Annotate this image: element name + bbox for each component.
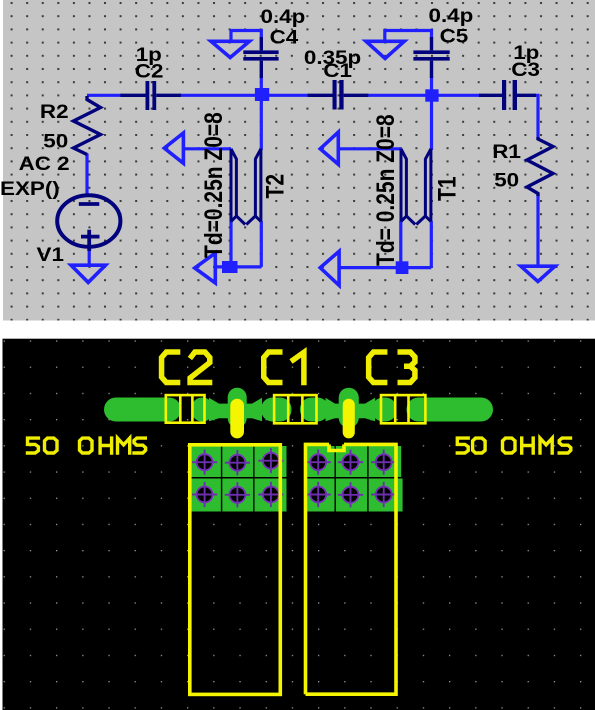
svg-text:T1: T1 bbox=[433, 176, 461, 201]
svg-text:T2: T2 bbox=[261, 174, 289, 199]
svg-text:R2: R2 bbox=[40, 102, 69, 123]
svg-text:Td= 0.25n Z0=8: Td= 0.25n Z0=8 bbox=[371, 114, 399, 266]
svg-text:0.4p: 0.4p bbox=[429, 6, 474, 27]
svg-text:EXP(): EXP() bbox=[0, 178, 60, 199]
svg-text:50: 50 bbox=[494, 170, 519, 191]
svg-text:C4: C4 bbox=[270, 27, 299, 48]
svg-text:C5: C5 bbox=[440, 26, 469, 47]
svg-text:AC 2: AC 2 bbox=[19, 154, 70, 175]
svg-text:C2: C2 bbox=[135, 61, 164, 82]
svg-text:C3: C3 bbox=[511, 60, 540, 81]
svg-text:V1: V1 bbox=[37, 244, 64, 265]
svg-text:C1: C1 bbox=[323, 61, 352, 82]
svg-text:R1: R1 bbox=[492, 141, 521, 162]
svg-text:50: 50 bbox=[43, 131, 68, 152]
svg-text:0.4p: 0.4p bbox=[261, 7, 306, 28]
svg-text:Td=0.25n Z0=8: Td=0.25n Z0=8 bbox=[199, 112, 227, 258]
